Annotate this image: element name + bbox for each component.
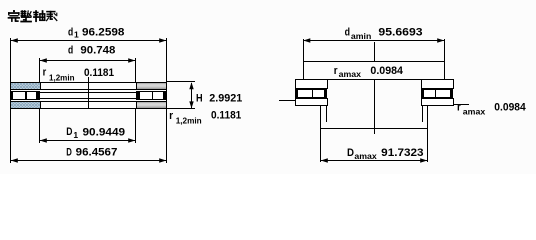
dimension d line [40,58,135,62]
cage strip lower line [40,98,136,99]
extension line D1 left [39,109,40,143]
label r1,2min 0.1181 upper [43,67,114,83]
washer gray bottom [136,101,167,109]
top washer strip lower line [40,89,136,90]
bottom washer strip upper line [40,101,136,102]
svg-text:r: r [169,110,174,122]
right view right washer bottom [421,98,454,106]
svg-text:H: H [196,92,203,104]
extension line d left [39,58,40,82]
svg-text:0.1181: 0.1181 [211,110,241,122]
roller and cage section right [136,91,166,100]
shaft surface line left [279,100,295,101]
dimension Damax line [321,158,427,162]
housing floor [320,128,428,129]
extension plus plate right edge [444,39,445,80]
centerline right view lower [374,79,375,134]
label Damax 91.7323 [347,147,424,161]
washer hatched top [10,82,41,90]
svg-text:0.0984: 0.0984 [494,101,526,113]
bearing outline bottom [10,108,167,109]
plate top line [303,61,445,62]
svg-text:D: D [66,146,72,158]
svg-text:0.0984: 0.0984 [370,65,403,77]
svg-text:95.6693: 95.6693 [378,26,422,38]
dimension damin line [303,38,444,42]
svg-text:d: d [68,26,73,38]
svg-text:96.2598: 96.2598 [82,26,124,38]
svg-text:1,2min: 1,2min [49,72,75,82]
bearing outline top [10,82,167,83]
washer gray top [136,82,167,90]
extension line D1 right [135,109,136,143]
title 完整轴承 [8,10,57,22]
recess corner line left [326,105,327,122]
svg-text:amin: amin [351,31,371,41]
right view right washer top [421,79,454,89]
label ramax 0.0984 plate [334,65,404,79]
plate bottom line [295,79,454,80]
extension plus plate left edge [303,39,304,80]
washer hatched bottom [10,101,41,109]
centerline right view upper [374,42,375,61]
svg-text:amax: amax [463,107,486,117]
svg-text:amax: amax [339,69,362,79]
extension line d right [135,58,136,82]
label D 96.4567 [66,146,117,158]
label damin 95.6693 [345,26,423,40]
svg-text:90.9449: 90.9449 [83,126,126,138]
svg-text:1,2min: 1,2min [176,116,202,126]
cage strip upper line [40,92,136,93]
dimension D1 line [40,138,135,142]
housing wall left plus Damax extension [320,105,321,162]
extension line right outer [166,38,167,163]
svg-text:2.9921: 2.9921 [209,92,242,104]
recess corner line right [422,105,423,122]
svg-text:D: D [347,147,354,159]
dimension D line [11,158,166,162]
svg-text:amax: amax [354,151,377,161]
dimension H line [189,82,193,108]
svg-text:r: r [334,65,338,77]
right view left washer bottom [295,98,328,106]
svg-text:d: d [345,26,350,38]
right view left rollers [295,89,327,98]
roller and cage section left [10,91,40,100]
right view right rollers [421,89,453,98]
svg-text:1: 1 [73,130,78,140]
H extension tick top [167,81,195,82]
label d 90.748 [68,45,115,57]
svg-text:90.748: 90.748 [80,45,115,57]
svg-text:96.4567: 96.4567 [76,146,118,158]
H extension tick bottom [167,108,195,109]
extension line left outer [10,38,11,163]
svg-text:r: r [457,102,461,114]
label d1 96.2598 [68,26,124,39]
housing wall right plus Damax extension [427,105,428,162]
svg-text:91.7323: 91.7323 [381,147,423,159]
label ramax 0.0984 right [457,101,527,116]
centerline left view [88,77,89,108]
label D1 90.9449 [66,126,125,140]
svg-text:r: r [43,67,47,79]
label r1,2min 0.1181 lower [169,110,241,126]
svg-text:d: d [68,45,73,57]
right view left washer top [295,79,328,89]
label H 2.9921 [196,92,242,104]
svg-text:D: D [66,126,72,138]
svg-text:1: 1 [74,29,79,39]
housing surface line right [454,104,469,105]
dimension d1 line [11,38,166,42]
